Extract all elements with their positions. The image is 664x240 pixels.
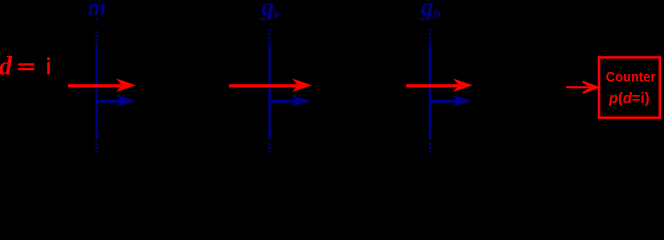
svg-text:m: m bbox=[88, 0, 106, 20]
svg-text:d: d bbox=[0, 52, 13, 81]
svg-text:g: g bbox=[261, 0, 275, 21]
svg-text:p(d=i): p(d=i) bbox=[608, 90, 649, 107]
svg-text:v: v bbox=[273, 7, 281, 21]
svg-text:h: h bbox=[433, 7, 440, 21]
svg-text:Counter: Counter bbox=[606, 70, 656, 85]
svg-text:g: g bbox=[420, 0, 434, 21]
